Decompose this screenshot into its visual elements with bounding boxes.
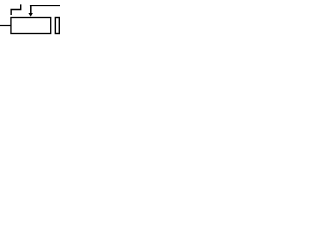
- pulse input symbol wire jog: [11, 4, 21, 15]
- trigger arrowhead: [28, 13, 33, 17]
- wire top net: [30, 5, 60, 7]
- trigger arrow shaft: [30, 5, 32, 13]
- component box: [11, 18, 51, 34]
- component plate narrow box: [55, 18, 59, 34]
- wire left lead: [0, 25, 11, 27]
